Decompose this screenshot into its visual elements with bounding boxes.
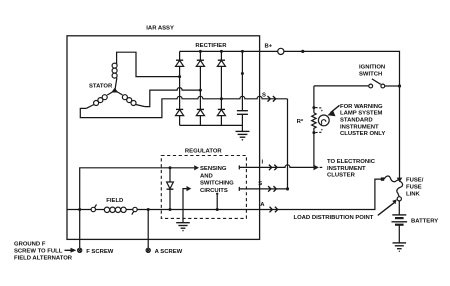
wire: B+ rail to right drop bbox=[284, 51, 400, 178]
diode D5 (bottom row, col 2) bbox=[196, 90, 204, 125]
svg-text:INSTRUMENT: INSTRUMENT bbox=[327, 166, 366, 172]
svg-text:AND: AND bbox=[200, 173, 213, 179]
svg-text:FUSE: FUSE bbox=[406, 185, 422, 191]
stator Y-junction node bbox=[111, 88, 118, 93]
wire: lamp branch upper bbox=[313, 86, 315, 113]
ground: rectifier ground bbox=[236, 131, 250, 139]
node: capacitor to B+ rail bbox=[241, 50, 244, 53]
diode D3 (top row, col 3) bbox=[217, 51, 225, 98]
A terminal arrows bbox=[270, 207, 278, 213]
wire: field line from box left edge bbox=[67, 209, 91, 211]
B+ label bbox=[265, 43, 273, 49]
node: phase-1 / col-1 junction bbox=[178, 75, 181, 78]
wire: A line through regulator box bbox=[137, 209, 259, 211]
svg-text:B+: B+ bbox=[265, 43, 273, 49]
stator phase-2 winding (right coil) bbox=[115, 91, 145, 107]
svg-text:SWITCH: SWITCH bbox=[359, 72, 382, 78]
rectifier bottom rail bbox=[180, 124, 243, 126]
wire: F screw drop bbox=[79, 210, 81, 249]
TO ELECTRONIC INSTRUMENT CLUSTER label bbox=[327, 159, 376, 179]
ground: battery ground bbox=[393, 243, 407, 251]
terminal: B+ output stud bbox=[278, 48, 284, 54]
battery BAT1 bbox=[392, 215, 408, 243]
FIELD label bbox=[106, 198, 123, 204]
capacitor C1 (suppression capacitor) bbox=[237, 51, 248, 131]
svg-text:BATTERY: BATTERY bbox=[411, 218, 438, 224]
STATOR label bbox=[89, 84, 113, 90]
IGNITION SWITCH label bbox=[359, 65, 385, 78]
node: sense line / diode junction bbox=[169, 166, 172, 169]
svg-text:FIELD: FIELD bbox=[106, 198, 123, 204]
REGULATOR label bbox=[185, 149, 223, 155]
A SCREW label bbox=[155, 249, 183, 255]
svg-text:CIRCUITS: CIRCUITS bbox=[200, 188, 228, 194]
svg-text:SWITCHING: SWITCHING bbox=[200, 181, 234, 187]
terminal: fuse link connector circle bbox=[397, 197, 401, 201]
brush terminal (F side) bbox=[91, 204, 96, 211]
arrow from note to F screw bbox=[65, 248, 77, 253]
wire: phase-3 lower path to rectifier column 3 bbox=[80, 96, 221, 117]
svg-text:FIELD ALTERNATOR: FIELD ALTERNATOR bbox=[14, 255, 73, 261]
diode D6 (bottom row, col 3) bbox=[217, 99, 225, 126]
FOR WARNING note bbox=[340, 104, 385, 137]
wire: phase-2 riser to rectifier column 2 bbox=[145, 88, 201, 107]
svg-text:STANDARD: STANDARD bbox=[340, 118, 373, 124]
SENSING AND SWITCHING CIRCUITS block label bbox=[200, 166, 234, 194]
fuse link wavy wire (down) bbox=[397, 181, 403, 197]
svg-text:FOR WARNING: FOR WARNING bbox=[340, 104, 383, 110]
R* label bbox=[297, 119, 304, 125]
svg-text:INSTRUMENT: INSTRUMENT bbox=[340, 124, 379, 130]
svg-text:FUSE/: FUSE/ bbox=[406, 178, 424, 184]
node: lamp branch top junction bbox=[312, 106, 315, 109]
diode D4 (bottom row, col 1) bbox=[176, 77, 184, 126]
node: B+ drop arrowhead at fuse bbox=[397, 178, 403, 183]
node: circuits stub / A line junction bbox=[216, 208, 219, 211]
LOAD DISTRIBUTION POINT label bbox=[294, 215, 374, 221]
svg-text:S: S bbox=[262, 92, 266, 98]
fuse link wavy wire (left) bbox=[384, 176, 399, 182]
svg-text:A: A bbox=[260, 202, 265, 208]
svg-text:SENSING: SENSING bbox=[200, 166, 227, 172]
diode CR (field suppression) bbox=[167, 168, 174, 210]
svg-text:IGNITION: IGNITION bbox=[359, 65, 385, 71]
svg-text:IAR ASSY: IAR ASSY bbox=[146, 25, 174, 31]
svg-text:LINK: LINK bbox=[406, 191, 420, 197]
terminal: F screw bbox=[78, 248, 82, 252]
ground: regulator ground bbox=[176, 210, 190, 231]
node: D2 cathode to rail bbox=[199, 50, 202, 53]
svg-text:A SCREW: A SCREW bbox=[155, 249, 183, 255]
wire: S line regulator to S drop bbox=[239, 187, 287, 191]
S out arrows (stator tap) bbox=[268, 96, 276, 102]
svg-text:R*: R* bbox=[297, 119, 304, 125]
svg-text:LAMP SYSTEM: LAMP SYSTEM bbox=[340, 111, 383, 117]
I terminal label bbox=[262, 159, 264, 165]
wire: A screw drop bbox=[147, 210, 149, 249]
wire: B+ rail out of box bbox=[260, 50, 278, 52]
IAR ASSY label bbox=[146, 25, 174, 31]
terminal: A screw bbox=[146, 248, 150, 252]
node: switch to B+ drop junction bbox=[398, 84, 401, 87]
node: fuse-link splice bbox=[381, 177, 384, 180]
RECTIFIER label bbox=[195, 43, 227, 49]
A terminal label bbox=[260, 202, 265, 208]
svg-text:REGULATOR: REGULATOR bbox=[185, 149, 223, 155]
node: S line / S drop junction bbox=[286, 187, 289, 190]
BATTERY label bbox=[411, 218, 438, 224]
node: sense riser / field line junction bbox=[78, 208, 81, 211]
warning lamp (parallel with R*) bbox=[315, 108, 329, 133]
svg-text:SCREW TO FULL: SCREW TO FULL bbox=[14, 249, 63, 255]
arrow from note to lamp bbox=[328, 105, 340, 116]
diode D1 (top row, col 1) bbox=[176, 51, 184, 76]
node: lamp branch bottom junction bbox=[312, 131, 315, 134]
svg-text:LOAD DISTRIBUTION POINT: LOAD DISTRIBUTION POINT bbox=[294, 215, 374, 221]
GROUND F SCREW note bbox=[14, 242, 73, 262]
rectifier B+ top rail bbox=[180, 50, 260, 52]
field winding L1 bbox=[96, 207, 133, 212]
S out label bbox=[262, 92, 266, 98]
wire: S output from phase-3 (hops over cap column and box edge) bbox=[221, 96, 287, 99]
node: phase-3 / col-3 junction bbox=[220, 97, 223, 100]
F SCREW label bbox=[86, 249, 114, 255]
wire: A line to load distribution point riser bbox=[260, 179, 382, 209]
wire: I line from regulator to cluster (hops over S drop) bbox=[239, 165, 322, 171]
node: B+ rail junction bbox=[301, 50, 304, 53]
regulator dashed box bbox=[161, 156, 246, 219]
wire: phase-1 to rectifier column 1 bbox=[117, 52, 180, 76]
arrow from label to fuse circle bbox=[378, 199, 397, 215]
node: diode to A line junction bbox=[169, 208, 172, 211]
stator phase-3 winding (left coil) bbox=[86, 91, 115, 109]
node: capacitor column junction bbox=[241, 72, 244, 75]
svg-text:CLUSTER ONLY: CLUSTER ONLY bbox=[340, 131, 385, 137]
svg-text:STATOR: STATOR bbox=[89, 84, 113, 90]
svg-text:CLUSTER: CLUSTER bbox=[327, 172, 356, 178]
node: A-screw drop junction bbox=[147, 208, 150, 211]
FUSE/FUSE LINK label bbox=[406, 178, 424, 198]
IAR ASSY enclosure box bbox=[67, 36, 260, 240]
wire: fuse to battery bbox=[398, 201, 400, 215]
resistor R* bbox=[312, 113, 316, 133]
wire: switching circuits tap with arrow bbox=[183, 186, 191, 210]
ignition switch SW1 bbox=[314, 79, 400, 88]
wire: S drop to regulator S terminal bbox=[287, 99, 289, 189]
wire: sense line from field node into regulator bbox=[80, 165, 199, 209]
S terminal label bbox=[258, 181, 262, 187]
stator phase-1 winding (top coil) bbox=[112, 63, 117, 91]
svg-text:S: S bbox=[258, 181, 262, 187]
svg-text:TO ELECTRONIC: TO ELECTRONIC bbox=[327, 159, 376, 165]
wire: lamp branch to I line bbox=[313, 133, 315, 167]
I terminal arrows bbox=[269, 165, 277, 171]
node: phase-2 / col-2 junction bbox=[199, 89, 202, 92]
diode D2 (top row, col 2) bbox=[196, 51, 204, 90]
svg-text:GROUND F: GROUND F bbox=[14, 242, 46, 248]
brush terminal (A side) bbox=[132, 207, 137, 214]
svg-text:I: I bbox=[262, 159, 264, 165]
S terminal arrows bbox=[268, 186, 276, 192]
node: D3 cathode to rail bbox=[220, 50, 223, 53]
svg-text:F SCREW: F SCREW bbox=[86, 249, 114, 255]
wire: circuits block stub to A line bbox=[216, 193, 218, 210]
svg-text:RECTIFIER: RECTIFIER bbox=[195, 43, 227, 49]
